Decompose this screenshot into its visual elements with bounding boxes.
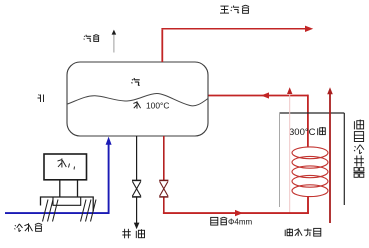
coil bottom connector (red) bbox=[307, 196, 309, 213]
water level wavy line bbox=[68, 93, 209, 105]
steam pipe riser (red) bbox=[161, 30, 163, 62]
return pipe downcomer to coil (red) bbox=[307, 95, 309, 148]
red downcomer from tank bottom bbox=[163, 136, 165, 181]
oil flow arrowhead bbox=[327, 87, 333, 94]
blowdown arrowhead bbox=[134, 223, 140, 230]
heating coil (5 turns) bbox=[292, 147, 328, 197]
feed water riser (blue) bbox=[108, 144, 110, 214]
tank (steam drum) bbox=[67, 62, 208, 136]
pump pedestal legs bbox=[59, 180, 61, 197]
red valve V2 bbox=[159, 180, 168, 197]
blowdown pipe (black) bbox=[136, 136, 138, 181]
cooler box left edge (faint) bbox=[279, 113, 281, 207]
label 冷水管 (cold water pipe) bbox=[14, 224, 22, 232]
label 汽 (steam) in tank bbox=[132, 78, 140, 86]
water direction arrowhead (dark red) bbox=[287, 87, 292, 94]
label 蒸汽管 (steam pipe) bbox=[220, 6, 229, 13]
return pipe horizontal into tank (red) bbox=[209, 95, 308, 97]
label 水 100°C in tank bbox=[133, 101, 140, 108]
label 放空 (vent) bbox=[84, 35, 91, 42]
cooler box right edge bbox=[343, 113, 345, 205]
feed water pipe (blue) bbox=[5, 212, 109, 214]
label 直管 Φ4mm bbox=[211, 217, 218, 225]
steam pipe arrowhead bbox=[305, 26, 313, 32]
bottom pipe arrowhead bbox=[235, 210, 243, 216]
pump body bbox=[44, 154, 87, 180]
label 泵 (pump) bbox=[58, 158, 67, 167]
svg-text:Φ4mm: Φ4mm bbox=[228, 217, 252, 226]
label 排污 (blowdown) bbox=[122, 229, 131, 239]
vertical label 油渣冷却器 (oil residue cooler) bbox=[354, 120, 363, 130]
vent pipe (gray) bbox=[113, 35, 115, 53]
feed water arrowhead (blue) bbox=[106, 137, 112, 145]
label 油流方向 (oil flow direction) bbox=[285, 228, 292, 236]
foundation hatching left bbox=[43, 200, 59, 222]
oil flow line (dark red) bbox=[329, 94, 331, 223]
steam pipe horizontal (red) bbox=[161, 28, 307, 30]
cooler box top edge bbox=[280, 112, 345, 114]
pump base plate bbox=[41, 197, 94, 212]
tiny gauge mark left of tank bbox=[38, 95, 44, 103]
bottom circulation pipe (red) bbox=[163, 212, 309, 214]
return pipe left arrowhead bbox=[261, 92, 269, 98]
base recess bbox=[53, 197, 81, 205]
vent arrowhead bbox=[112, 30, 117, 35]
black valve V1 bbox=[132, 180, 141, 197]
svg-text:300°C: 300°C bbox=[289, 127, 316, 138]
foundation hatching right bbox=[81, 200, 97, 222]
water direction faint line bbox=[289, 93, 291, 213]
svg-text:100°C: 100°C bbox=[146, 100, 169, 110]
